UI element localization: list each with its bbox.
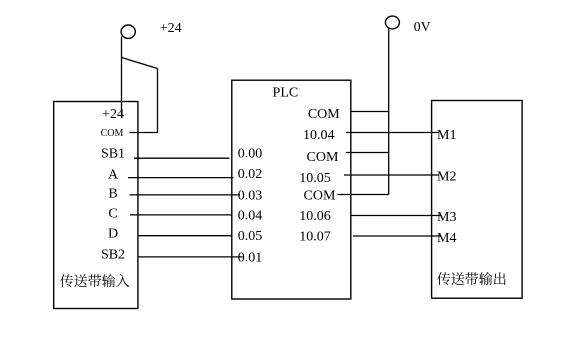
svg-text:10.07: 10.07 (299, 229, 331, 244)
svg-text:0.03: 0.03 (238, 188, 262, 203)
svg-text:M2: M2 (437, 170, 456, 185)
svg-text:SB1: SB1 (101, 146, 125, 161)
svg-text:0.00: 0.00 (238, 146, 262, 161)
svg-text:COM: COM (307, 150, 339, 165)
svg-text:M1: M1 (437, 128, 456, 143)
svg-text:COM: COM (101, 128, 124, 139)
svg-text:PLC: PLC (273, 85, 299, 100)
svg-text:0.01: 0.01 (238, 250, 262, 265)
svg-text:0V: 0V (414, 20, 431, 35)
svg-text:+24: +24 (160, 21, 182, 36)
svg-text:10.05: 10.05 (299, 171, 331, 186)
svg-text:C: C (108, 206, 117, 221)
svg-text:COM: COM (304, 188, 336, 203)
svg-text:M3: M3 (437, 210, 456, 225)
svg-text:COM: COM (308, 107, 340, 122)
svg-text:10.04: 10.04 (303, 128, 335, 143)
svg-text:0.02: 0.02 (238, 167, 262, 182)
svg-text:0.05: 0.05 (238, 229, 262, 244)
svg-text:A: A (108, 167, 119, 182)
svg-text:B: B (108, 186, 117, 201)
svg-text:M4: M4 (437, 231, 456, 246)
svg-text:10.06: 10.06 (299, 209, 331, 224)
svg-text:+24: +24 (102, 107, 124, 122)
svg-text:SB2: SB2 (101, 248, 125, 263)
svg-text:D: D (108, 226, 118, 241)
svg-text:0.04: 0.04 (238, 208, 262, 223)
